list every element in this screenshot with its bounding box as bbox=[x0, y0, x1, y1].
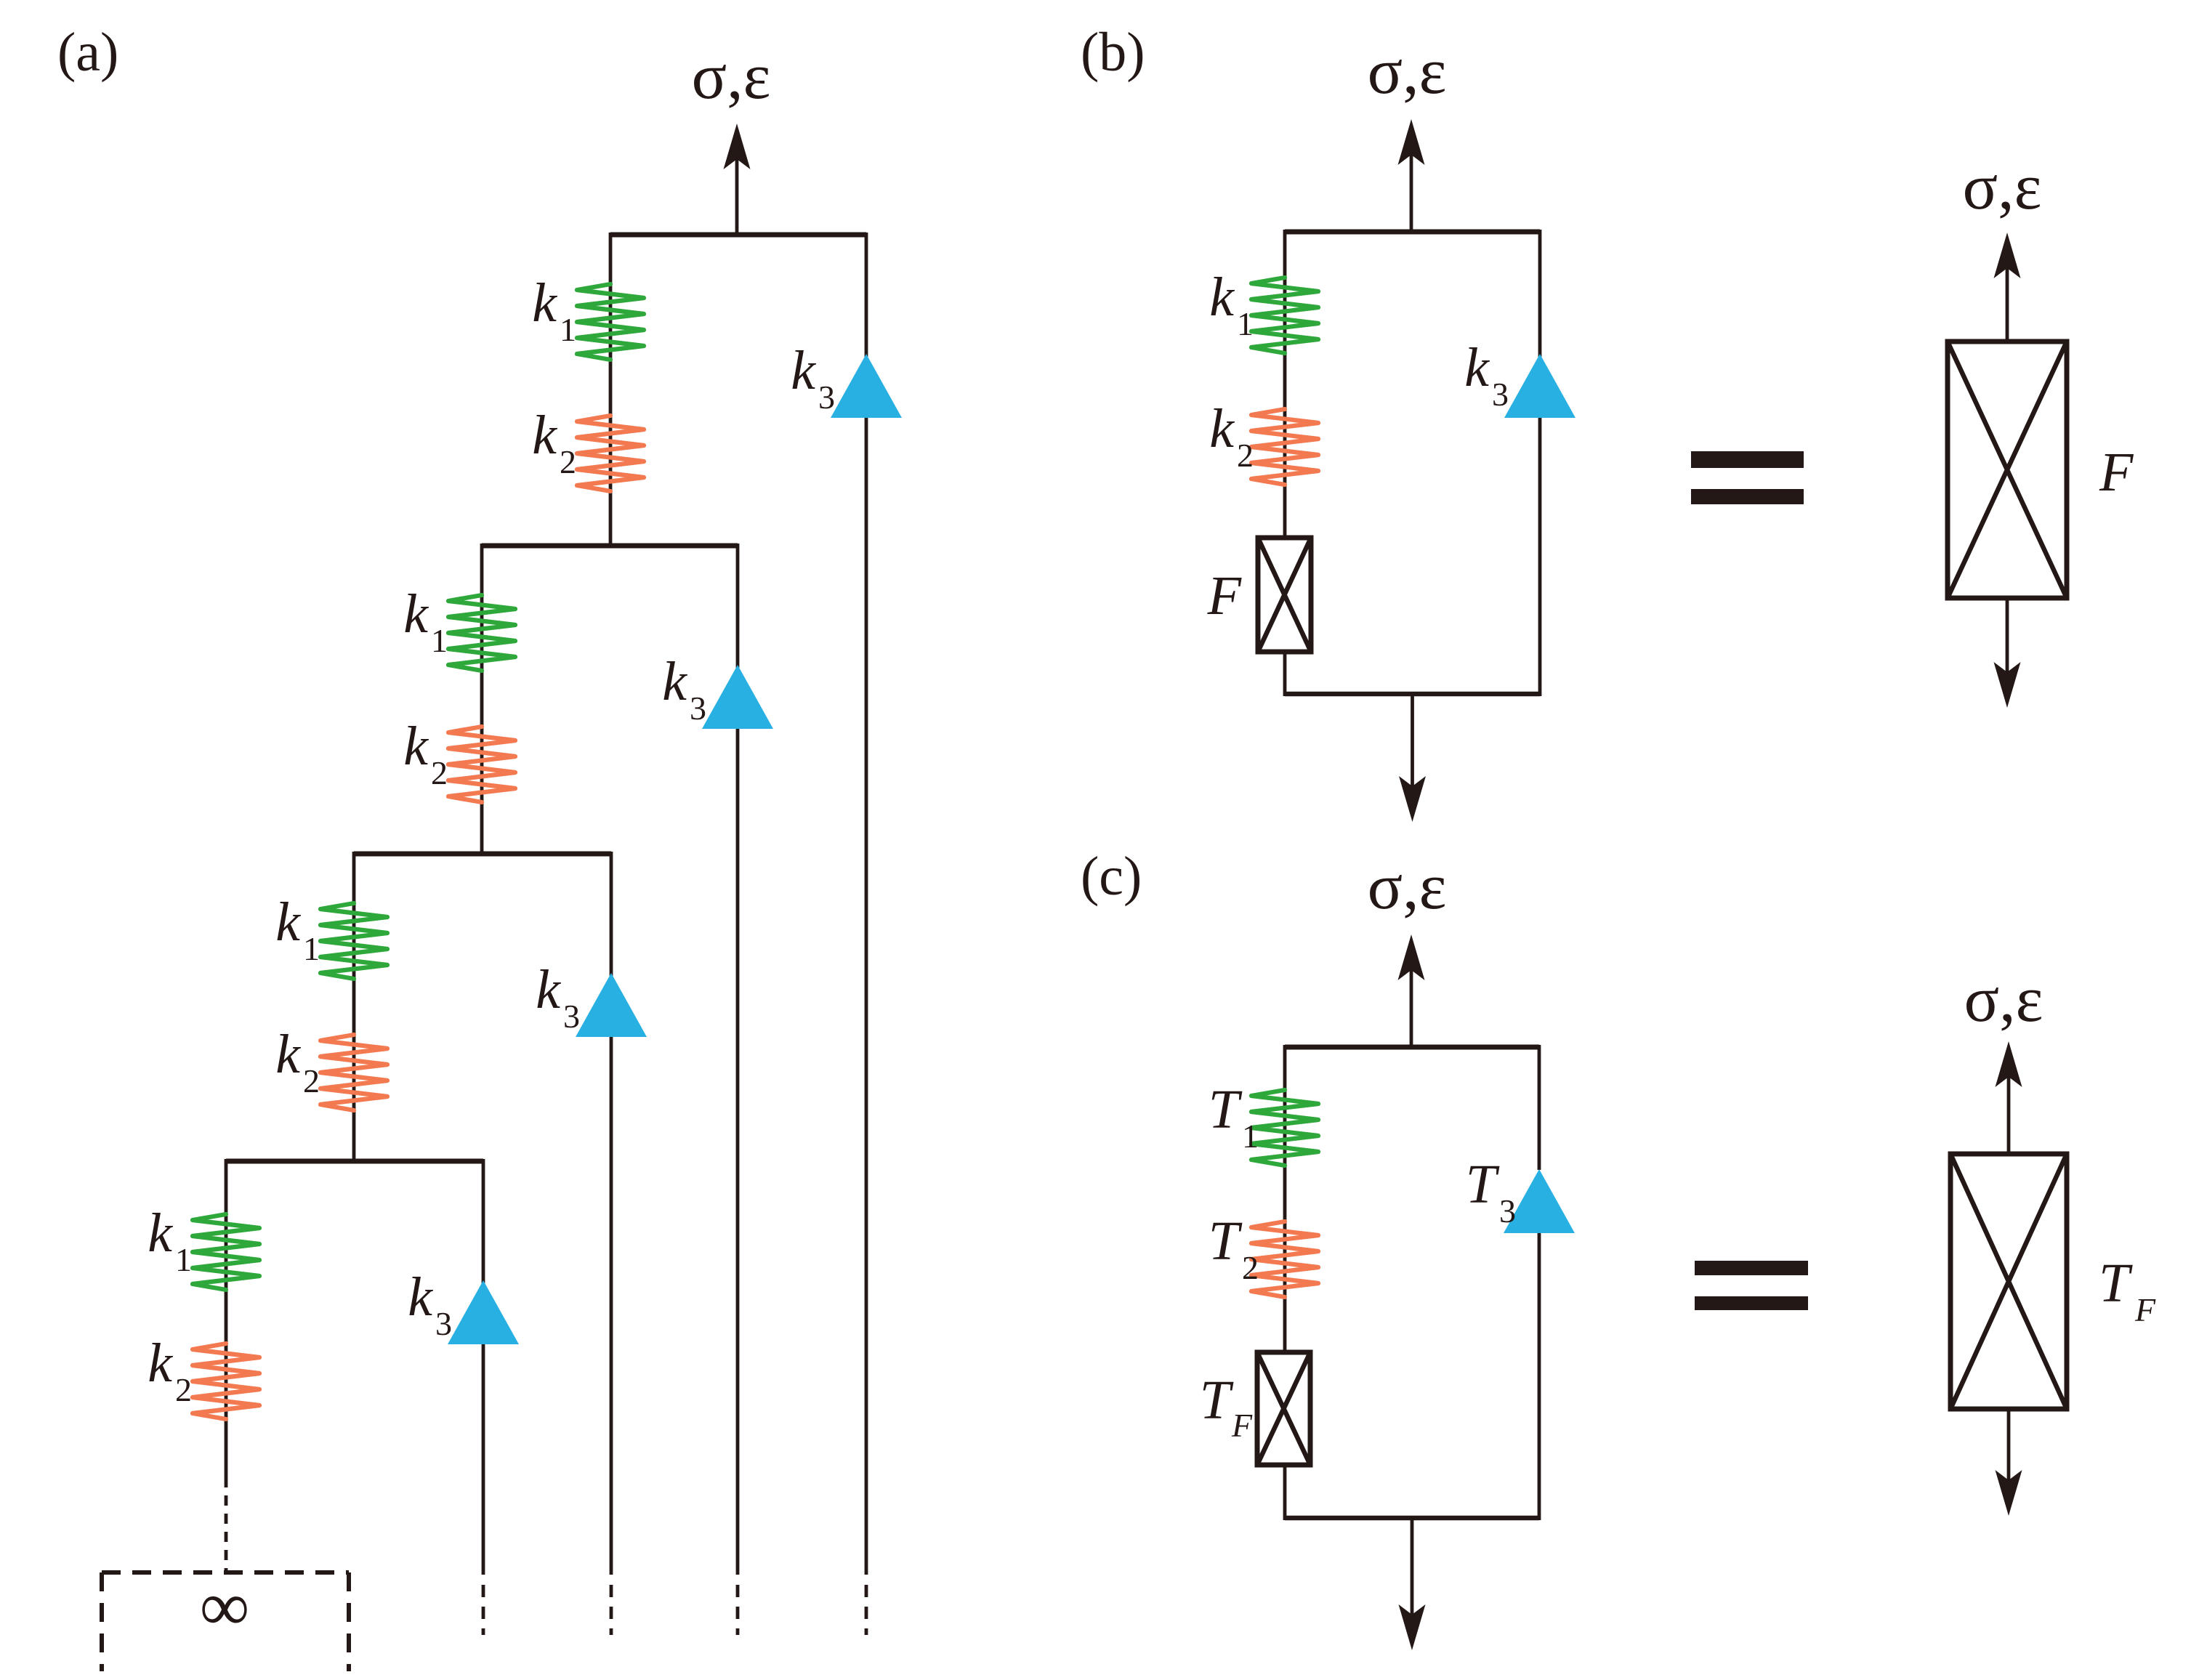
wire left branch gen3 bbox=[352, 852, 356, 1161]
svg-text:3: 3 bbox=[818, 379, 835, 416]
stress arrow up right panel b bbox=[1994, 233, 2021, 342]
svg-text:1: 1 bbox=[1242, 1118, 1259, 1155]
label k1 gen3 bbox=[275, 892, 320, 967]
wire right branch upper gen4 bbox=[482, 1159, 485, 1283]
svg-text:F: F bbox=[1231, 1407, 1253, 1444]
stress arrow down right panel c bbox=[1996, 1409, 2022, 1516]
svg-text:k: k bbox=[662, 651, 687, 712]
svg-text:k: k bbox=[403, 583, 429, 645]
element k3 panel b (triangle) bbox=[1504, 354, 1575, 418]
spring T2 panel c bbox=[1251, 1221, 1318, 1297]
wire left branch upper panel b bbox=[1283, 230, 1287, 539]
svg-text:1: 1 bbox=[431, 622, 448, 659]
stress arrow up right panel c bbox=[1996, 1041, 2022, 1154]
element T3 panel c (triangle) bbox=[1504, 1169, 1575, 1233]
spring k2 gen1 bbox=[577, 416, 644, 491]
spring T1 panel c bbox=[1251, 1090, 1318, 1166]
label k2 gen3 bbox=[275, 1024, 320, 1099]
equals sign panel b bbox=[1691, 451, 1804, 504]
wire right branch lower gen2 bbox=[736, 729, 740, 1575]
wire right branch lower panel c bbox=[1538, 1233, 1541, 1520]
spring k1 gen3 bbox=[320, 903, 387, 979]
svg-text:T: T bbox=[1466, 1154, 1500, 1215]
label k3 panel b bbox=[1464, 337, 1509, 413]
svg-text:3: 3 bbox=[1492, 376, 1509, 413]
label T3 panel c bbox=[1466, 1154, 1516, 1229]
svg-text:(b): (b) bbox=[1081, 22, 1145, 83]
label T1 panel c bbox=[1209, 1079, 1259, 1155]
svg-text:2: 2 bbox=[431, 754, 448, 791]
label k2 gen2 bbox=[403, 716, 448, 791]
label T2 panel c bbox=[1209, 1211, 1259, 1286]
dashed box infinity region bbox=[102, 1572, 349, 1671]
wire right branch upper gen3 bbox=[610, 852, 613, 976]
wire right branch lower gen3 bbox=[610, 1037, 613, 1575]
svg-text:k: k bbox=[148, 1333, 173, 1394]
svg-text:k: k bbox=[1464, 337, 1490, 398]
svg-text:3: 3 bbox=[563, 998, 580, 1035]
wire left branch lower panel c bbox=[1283, 1463, 1287, 1520]
wire bracket gen4 bbox=[226, 1159, 483, 1164]
wire right branch lower gen1 bbox=[865, 418, 868, 1575]
wire rectangle top panel c bbox=[1285, 1045, 1539, 1050]
wire rectangle bottom panel c bbox=[1285, 1516, 1539, 1521]
wire bracket gen1 bbox=[610, 233, 866, 238]
wire right branch lower panel b bbox=[1538, 418, 1542, 696]
wire right branch upper panel c bbox=[1538, 1045, 1541, 1170]
svg-text:k: k bbox=[275, 1024, 301, 1085]
stress arrow down panel c bbox=[1399, 1518, 1426, 1650]
label k1 panel b bbox=[1209, 267, 1254, 342]
svg-text:(a): (a) bbox=[57, 22, 118, 83]
stress arrow up panel b bbox=[1398, 119, 1425, 232]
spring k1 panel b bbox=[1251, 278, 1318, 353]
wire bracket gen2 bbox=[482, 544, 738, 549]
svg-text:k: k bbox=[1209, 398, 1235, 459]
label k1 gen1 bbox=[532, 272, 576, 348]
svg-text:T: T bbox=[2099, 1253, 2133, 1314]
label TF panel c bbox=[1200, 1370, 1253, 1444]
fractal element F box panel b bbox=[1258, 538, 1311, 652]
stress arrow up panel a bbox=[724, 124, 751, 235]
svg-text:F: F bbox=[1207, 565, 1243, 626]
wire left branch gen2 bbox=[480, 544, 484, 854]
label k2 gen1 bbox=[532, 405, 576, 480]
spring k2 gen3 bbox=[320, 1035, 387, 1110]
wire right branch upper panel b bbox=[1538, 230, 1542, 357]
wire left branch gen4 bbox=[225, 1159, 228, 1477]
equivalent element TF box panel c bbox=[1950, 1154, 2067, 1409]
spring k1 gen4 bbox=[193, 1214, 259, 1290]
svg-text:σ,ε: σ,ε bbox=[1963, 151, 2042, 223]
label k3 gen3 bbox=[536, 959, 580, 1035]
element k3 gen1 (triangle) bbox=[831, 354, 902, 418]
svg-text:T: T bbox=[1200, 1370, 1234, 1431]
wire right branch upper gen1 bbox=[865, 233, 868, 357]
stress arrow down right panel b bbox=[1994, 598, 2021, 708]
label k3 gen4 bbox=[408, 1267, 452, 1342]
svg-text:2: 2 bbox=[175, 1371, 192, 1408]
label k2 panel b bbox=[1209, 398, 1254, 474]
svg-text:1: 1 bbox=[175, 1241, 192, 1278]
spring k2 panel b bbox=[1251, 409, 1318, 485]
svg-text:k: k bbox=[275, 892, 301, 953]
wire rectangle bottom panel b bbox=[1285, 692, 1540, 697]
svg-text:k: k bbox=[403, 716, 429, 777]
element k3 gen3 (triangle) bbox=[576, 973, 647, 1037]
svg-text:1: 1 bbox=[303, 930, 320, 967]
wire left branch upper panel c bbox=[1283, 1045, 1287, 1354]
stress arrow down panel b bbox=[1399, 694, 1426, 822]
label k3 gen1 bbox=[791, 340, 835, 416]
svg-text:3: 3 bbox=[690, 690, 706, 727]
dashed wire stub gen1 bbox=[865, 1585, 868, 1635]
svg-text:∞: ∞ bbox=[200, 1567, 249, 1645]
svg-text:σ,ε: σ,ε bbox=[1368, 851, 1447, 923]
svg-text:k: k bbox=[408, 1267, 433, 1328]
svg-text:2: 2 bbox=[1242, 1249, 1259, 1286]
label k3 gen2 bbox=[662, 651, 706, 727]
svg-text:1: 1 bbox=[560, 311, 576, 348]
equivalent element F box panel b bbox=[1948, 342, 2067, 598]
spring k1 gen2 bbox=[448, 595, 515, 671]
svg-text:2: 2 bbox=[560, 443, 576, 480]
label k1 gen4 bbox=[148, 1203, 192, 1278]
svg-text:σ,ε: σ,ε bbox=[692, 41, 771, 113]
svg-text:k: k bbox=[1209, 267, 1235, 328]
svg-text:2: 2 bbox=[303, 1062, 320, 1099]
svg-text:2: 2 bbox=[1237, 437, 1254, 474]
wire bracket gen3 bbox=[354, 852, 611, 857]
svg-text:(c): (c) bbox=[1081, 846, 1142, 907]
svg-text:T: T bbox=[1209, 1079, 1243, 1140]
wire left branch gen1 bbox=[609, 233, 613, 546]
svg-text:σ,ε: σ,ε bbox=[1368, 36, 1447, 108]
svg-text:3: 3 bbox=[1499, 1192, 1516, 1229]
svg-text:3: 3 bbox=[435, 1305, 452, 1342]
dashed wire stub gen4 bbox=[482, 1585, 485, 1635]
wire right branch upper gen2 bbox=[736, 544, 740, 668]
svg-text:k: k bbox=[532, 272, 557, 334]
label k2 gen4 bbox=[148, 1333, 192, 1408]
svg-text:F: F bbox=[2099, 442, 2134, 503]
svg-text:1: 1 bbox=[1237, 305, 1254, 342]
wire rectangle top panel b bbox=[1285, 230, 1540, 235]
svg-text:k: k bbox=[536, 959, 561, 1020]
svg-text:k: k bbox=[791, 340, 816, 401]
svg-text:σ,ε: σ,ε bbox=[1964, 964, 2043, 1035]
label k1 gen2 bbox=[403, 583, 448, 659]
dashed wire stub gen2 bbox=[736, 1585, 740, 1635]
svg-text:T: T bbox=[1209, 1211, 1243, 1272]
dashed wire stub gen3 bbox=[610, 1585, 613, 1635]
spring k1 gen1 bbox=[577, 284, 644, 360]
element k3 gen4 (triangle) bbox=[448, 1280, 519, 1344]
label TF right panel c bbox=[2099, 1253, 2156, 1328]
spring k2 gen4 bbox=[193, 1344, 259, 1419]
wire left branch lower panel b bbox=[1283, 650, 1287, 696]
wire right branch lower gen4 bbox=[482, 1344, 485, 1575]
dashed wire continuation gen4 bbox=[225, 1477, 228, 1572]
svg-text:F: F bbox=[2134, 1291, 2156, 1328]
fractal element TF box panel c bbox=[1257, 1352, 1310, 1465]
svg-text:k: k bbox=[532, 405, 557, 466]
element k3 gen2 (triangle) bbox=[702, 665, 773, 729]
svg-text:k: k bbox=[148, 1203, 173, 1264]
spring k2 gen2 bbox=[448, 727, 515, 802]
equals sign panel c bbox=[1695, 1261, 1808, 1310]
stress arrow up panel c bbox=[1398, 934, 1425, 1047]
